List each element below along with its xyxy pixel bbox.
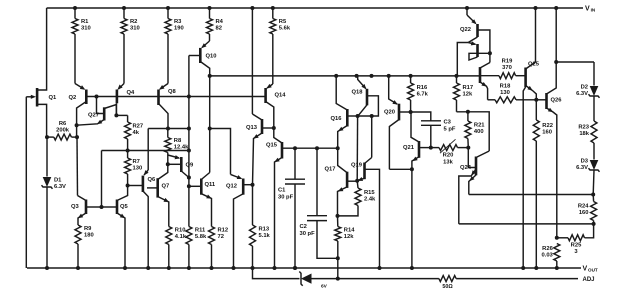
svg-text:200k: 200k: [56, 127, 70, 133]
resistor R11: [186, 227, 192, 245]
resistor R14: [335, 227, 341, 242]
node Q10 collector / rail start: [208, 74, 212, 78]
wire Q11 collector vertical: [209, 76, 211, 173]
resistor R7: [125, 158, 131, 174]
svg-text:400: 400: [474, 129, 484, 135]
svg-text:5.1k: 5.1k: [259, 233, 271, 239]
resistor R26: [554, 244, 560, 262]
svg-text:R1: R1: [81, 19, 89, 25]
svg-text:190: 190: [174, 26, 184, 32]
svg-text:R8: R8: [174, 138, 182, 144]
resistor R6: [54, 134, 72, 140]
svg-text:V: V: [585, 6, 590, 13]
wire Q24 emitter to R24 node: [459, 223, 593, 225]
transistor Q2: [85, 90, 88, 105]
svg-text:R10: R10: [175, 228, 186, 234]
svg-text:ADJ: ADJ: [583, 277, 595, 283]
svg-text:310: 310: [81, 26, 91, 32]
svg-text:R5: R5: [279, 19, 287, 25]
node R8 bottom / Q9 base junction: [166, 162, 170, 166]
svg-text:D3: D3: [581, 159, 589, 165]
svg-text:Q7: Q7: [162, 184, 170, 190]
transistor Q15: [281, 142, 284, 159]
svg-text:R21: R21: [474, 123, 485, 129]
transistor Q11: [200, 179, 203, 195]
svg-text:R14: R14: [344, 228, 355, 234]
node Q9 collector junction: [187, 176, 191, 180]
transistor Q20: [398, 104, 401, 121]
transistor Q6: [142, 176, 145, 192]
svg-text:Q1: Q1: [49, 95, 58, 101]
wire Q12 emitter branch: [210, 129, 231, 175]
svg-text:4k: 4k: [133, 130, 140, 136]
node Q16-base / Q18-collector junction: [356, 114, 360, 118]
node Q25-emitter / R18 / Q26-base / R22 junction: [534, 98, 538, 102]
transistor Q16: [346, 109, 349, 127]
node C1 top junction: [293, 146, 297, 150]
svg-text:18k: 18k: [579, 131, 589, 137]
node Q22-base / Q23-collector junction: [488, 51, 492, 55]
svg-text:Q14: Q14: [275, 93, 287, 99]
wire Q2-collector chain down to Q3: [76, 125, 78, 137]
svg-text:310: 310: [130, 26, 140, 32]
transistor Q26: [545, 93, 548, 109]
svg-text:Q20: Q20: [384, 109, 395, 115]
svg-text:R12: R12: [218, 228, 229, 234]
wire Q10 base chain vertical: [188, 56, 190, 227]
svg-text:Q19: Q19: [351, 162, 363, 168]
resistor 50ohm: [439, 276, 456, 282]
svg-text:5.8k: 5.8k: [195, 234, 207, 240]
resistor R4: [207, 19, 213, 35]
resistor R5: [270, 19, 276, 35]
svg-text:R11: R11: [195, 228, 206, 234]
svg-text:Q12: Q12: [226, 184, 237, 190]
transistor Q3: [85, 200, 88, 215]
svg-text:R4: R4: [216, 19, 224, 25]
svg-text:R16: R16: [417, 85, 428, 91]
svg-text:Q17: Q17: [325, 167, 336, 173]
node Q20-base / R16 / C3 / Q21-collector junction: [409, 110, 413, 114]
node R20 / R21 / Q24-base junction: [466, 146, 470, 150]
svg-text:C3: C3: [444, 120, 452, 126]
node R6 right junction: [75, 135, 79, 139]
capacitor C1: [294, 148, 296, 179]
svg-text:R15: R15: [364, 190, 375, 196]
wire R20 adjustment slash: [440, 139, 456, 153]
svg-text:R26: R26: [542, 246, 553, 252]
resistor R8: [165, 138, 171, 153]
svg-text:180: 180: [84, 233, 94, 239]
resistor R16: [408, 83, 414, 100]
resistor R17: [454, 83, 460, 100]
transistor Q21: [418, 141, 421, 158]
resistor R18: [495, 97, 516, 103]
transistor Q10: [199, 48, 202, 63]
node Q2/Q4 base junction: [95, 95, 99, 99]
transistor Q8: [157, 90, 160, 106]
resistor R15: [355, 188, 361, 206]
resistor R25: [568, 235, 585, 241]
resistor R13: [250, 225, 256, 246]
svg-text:Q8: Q8: [168, 89, 177, 95]
svg-text:IN: IN: [591, 8, 596, 13]
wire PNP base rail (y=96.5): [86, 96, 265, 98]
wire Q23 emitter branch to R17 line: [457, 43, 468, 76]
node C3 bottom / Q21 base junction: [429, 146, 433, 150]
svg-text:13k: 13k: [443, 159, 453, 165]
svg-text:R27: R27: [133, 124, 144, 130]
svg-text:R22: R22: [542, 123, 553, 129]
diode D2 (zener 6.3V): [593, 62, 595, 86]
svg-text:160: 160: [542, 130, 552, 136]
wire base line to Q3/Q5: [102, 150, 128, 152]
node D3 / Q24-emitter junction: [591, 193, 595, 197]
svg-text:12.4k: 12.4k: [174, 144, 189, 150]
svg-text:Q6: Q6: [148, 177, 157, 183]
node R14 chain / ADJ junction: [336, 277, 340, 281]
svg-text:160: 160: [579, 210, 589, 216]
svg-text:50Ω: 50Ω: [442, 284, 453, 290]
svg-text:370: 370: [502, 65, 512, 71]
wire Q20-collector / Q21-emitter node line: [389, 168, 412, 170]
svg-text:R20: R20: [443, 153, 454, 159]
svg-text:Q24: Q24: [460, 165, 472, 171]
diode D1 (zener 6.3V): [46, 137, 48, 176]
capacitor C3: [411, 112, 431, 121]
svg-text:12k: 12k: [344, 234, 354, 240]
svg-text:6.3V: 6.3V: [54, 184, 66, 190]
node R27 bottom junction: [126, 149, 130, 153]
svg-text:130: 130: [133, 166, 143, 172]
node Q11 base junction: [187, 184, 191, 188]
wire V_OUT bottom rail: [27, 267, 581, 269]
node Q14-collector / Q13-base / Q15-collector junction: [272, 126, 276, 130]
transistor Q14: [264, 88, 267, 103]
svg-text:Q9: Q9: [186, 163, 195, 169]
node rail dots (y=76): [334, 74, 338, 78]
node Q19-emitter / Q17-base / R15 junction: [355, 179, 359, 183]
diode ADJ zener (6V): [299, 272, 302, 286]
wire ADJ line: [253, 268, 300, 279]
node R8 top junction: [166, 127, 170, 131]
svg-text:Q15: Q15: [266, 143, 278, 149]
transistor Q19: [363, 163, 366, 180]
node R6 left junction: [45, 135, 49, 139]
svg-text:5 pF: 5 pF: [444, 127, 456, 133]
node R24 bottom junction: [592, 222, 596, 226]
node Q11-collector / Q12-emitter junction: [208, 127, 212, 131]
resistor R1: [72, 19, 78, 35]
transistor Q7: [156, 178, 159, 197]
transistor Q9: [180, 157, 183, 172]
wire R15 top vertical: [356, 116, 358, 181]
wire V_IN top rail: [47, 7, 583, 9]
node R14 / C2 junction: [336, 256, 340, 260]
svg-text:R13: R13: [259, 227, 270, 233]
svg-text:Q4: Q4: [127, 90, 136, 96]
node base-line right junction: [187, 149, 191, 153]
svg-text:Q26: Q26: [551, 98, 563, 104]
node C1 bottom rail junction: [293, 266, 297, 270]
svg-text:R25: R25: [571, 243, 582, 249]
transistor Q17: [346, 172, 349, 188]
transistor Q12: [242, 179, 245, 195]
node Q21 emitter junction: [410, 167, 414, 171]
svg-text:Q10: Q10: [206, 54, 217, 60]
svg-text:R7: R7: [133, 159, 140, 165]
node R21 top junction: [466, 110, 470, 114]
resistor R19: [499, 73, 516, 79]
node V_OUT rail junction dots: [45, 266, 49, 270]
wire Q26-collector node to D2: [556, 61, 594, 63]
node Q12 base / Q13 emitter junction: [251, 183, 255, 187]
svg-text:6.3V: 6.3V: [576, 165, 588, 171]
svg-text:Q16: Q16: [331, 116, 343, 122]
node Q3/Q5 base junction: [100, 205, 104, 209]
resistor R23: [591, 121, 597, 143]
junction dots on V_IN rail: [73, 6, 77, 10]
transistor Q24 upper (Q23 pair): [479, 67, 482, 83]
transistor Q13: [261, 119, 264, 134]
svg-text:Q21: Q21: [403, 145, 415, 151]
svg-text:Q22: Q22: [460, 27, 471, 33]
svg-text:R23: R23: [578, 125, 589, 131]
transistor Q5: [116, 200, 119, 215]
transistor Q1 (JFET): [36, 88, 39, 107]
resistor R3: [165, 19, 171, 35]
node Q19-collector junction: [370, 114, 374, 118]
svg-text:130: 130: [500, 90, 510, 96]
node Q2 collector / Q27 emitter junction: [75, 123, 79, 127]
svg-text:Q25: Q25: [528, 62, 540, 68]
wire second rail (gain node, y=76): [210, 75, 480, 77]
resistor R12: [209, 227, 215, 245]
node Q15-base / Q16-emitter / Q17-collector junction: [336, 146, 340, 150]
transistor Q25: [524, 68, 527, 88]
svg-text:C1: C1: [278, 188, 286, 194]
node base-chain / R8-rail junction: [187, 127, 191, 131]
resistor R22: [533, 120, 539, 141]
transistor Q4: [116, 90, 119, 104]
svg-text:R2: R2: [130, 19, 137, 25]
resistor R21: [465, 121, 471, 139]
svg-text:D2: D2: [581, 85, 588, 91]
svg-text:Q27: Q27: [88, 113, 99, 119]
svg-text:R18: R18: [500, 84, 511, 90]
svg-text:6.3V: 6.3V: [576, 91, 588, 97]
svg-text:30 pF: 30 pF: [300, 231, 316, 237]
capacitor C2: [316, 148, 318, 216]
svg-text:12k: 12k: [463, 92, 473, 98]
svg-text:R17: R17: [463, 85, 474, 91]
wire Q6 emitter rail: [147, 129, 149, 171]
svg-text:82: 82: [216, 26, 222, 32]
svg-text:R9: R9: [84, 226, 92, 232]
svg-text:D1: D1: [54, 178, 62, 184]
svg-text:Q13: Q13: [246, 125, 258, 131]
transistor Q24: [475, 157, 478, 176]
svg-text:R6: R6: [59, 121, 67, 127]
wire Q19 collector vertical: [371, 116, 373, 158]
wire Q13 emitter from V_IN: [251, 8, 253, 114]
svg-text:0.03: 0.03: [542, 253, 554, 259]
svg-text:R3: R3: [174, 19, 182, 25]
svg-text:Q11: Q11: [205, 182, 216, 188]
node R7 bottom junction: [126, 184, 130, 188]
transistor Q27: [103, 107, 106, 120]
transistor Q18: [366, 89, 369, 106]
node Q4/Q27 collector junction: [114, 113, 118, 117]
svg-text:5.6k: 5.6k: [279, 26, 291, 32]
node Q17-emitter / R15 junction: [336, 214, 340, 218]
svg-text:R19: R19: [502, 59, 513, 65]
resistor R9: [75, 225, 81, 244]
wire Q6-emitter horizontal (y=128.5): [148, 128, 189, 130]
wire R14-C2 node to ADJ line: [337, 258, 339, 278]
wire Q21-emitter node down to V_OUT rail: [411, 169, 413, 268]
resistor R10: [166, 227, 172, 245]
svg-text:Q3: Q3: [71, 204, 80, 210]
svg-text:C2: C2: [300, 224, 307, 230]
node R25 left / Q26-emitter junction: [555, 236, 559, 240]
svg-text:Q5: Q5: [120, 204, 129, 210]
svg-text:6V: 6V: [321, 284, 328, 290]
wire Q1 gate to bottom rail: [25, 97, 27, 268]
resistor R27: [125, 122, 131, 139]
svg-text:V: V: [583, 266, 588, 273]
resistor R20: [439, 145, 458, 151]
svg-text:Q2: Q2: [69, 95, 77, 101]
node base-chain / PNP rail junction: [187, 95, 191, 99]
svg-text:30 pF: 30 pF: [278, 195, 294, 201]
wire Q24 emitter to D3 node: [469, 194, 593, 196]
svg-text:6.7k: 6.7k: [417, 92, 429, 98]
transistor Q22: [476, 24, 479, 37]
resistor R24: [591, 202, 597, 221]
svg-text:2.4k: 2.4k: [364, 197, 376, 203]
node Q26 collector branch junction: [554, 60, 558, 64]
svg-text:R24: R24: [578, 204, 589, 210]
transistor Q23: [476, 44, 479, 57]
node C2 top junction: [315, 146, 319, 150]
svg-text:OUT: OUT: [588, 268, 598, 273]
svg-text:72: 72: [218, 234, 224, 240]
svg-text:Q18: Q18: [352, 90, 364, 96]
wire R17 bottom horizontal: [457, 112, 490, 151]
diode D3 (zener 6.3V): [593, 143, 595, 160]
resistor R2: [121, 19, 127, 35]
